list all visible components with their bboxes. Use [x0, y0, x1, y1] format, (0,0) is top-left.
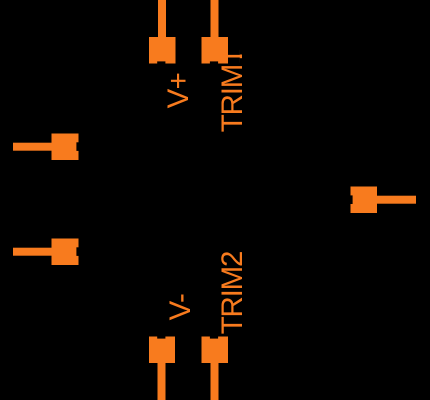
- pin IN- notch: [76, 142, 78, 151]
- pin TRIM2 pad: [202, 337, 229, 364]
- pin V+ wire: [158, 0, 166, 38]
- pin OUT notch: [351, 195, 353, 204]
- pin V+ notch: [157, 61, 165, 63]
- svg-text:TRIM1: TRIM1: [216, 50, 249, 133]
- svg-text:V+: V+: [162, 73, 195, 109]
- pin V+ pad: [149, 37, 176, 64]
- pin IN+ notch: [76, 247, 78, 256]
- pin TRIM2 notch: [210, 337, 218, 339]
- pin OUT pad: [351, 187, 378, 214]
- pin TRIM1 pad: [202, 37, 229, 64]
- pin V- notch: [157, 337, 165, 339]
- pin V- pad: [149, 337, 175, 364]
- pin V- wire: [158, 363, 166, 400]
- pin IN+ pad: [52, 239, 79, 266]
- pin OUT wire: [377, 196, 416, 204]
- svg-text:TRIM2: TRIM2: [216, 252, 249, 335]
- mask: hide foot serif of digit 1 (target font has none): [240, 49, 244, 54]
- pin TRIM2 wire: [211, 363, 219, 400]
- pin TRIM1 wire: [211, 0, 219, 38]
- pin TRIM1 notch: [210, 61, 218, 63]
- pin IN+ wire: [13, 248, 52, 256]
- svg-text:V-: V-: [164, 294, 197, 320]
- pin IN- wire: [13, 143, 52, 151]
- pin IN- pad: [52, 134, 79, 161]
